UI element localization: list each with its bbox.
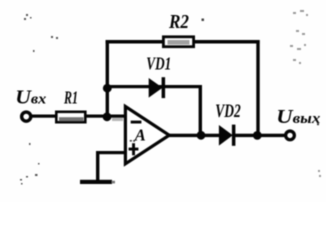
diode VD2 [219,125,236,146]
resistor R2 [163,37,193,47]
op-amp plus sign [129,143,139,155]
junction: VD1 branch tap [103,84,112,93]
wire: VD2 to output node and terminal [235,134,285,137]
svg-text:VD2: VD2 [215,102,241,122]
junction: output node [253,131,262,140]
resistor R1 [56,112,85,122]
wire: VD1 branch horizontal [107,85,200,88]
svg-text:R2: R2 [168,11,189,33]
svg-text:VD1: VD1 [146,54,171,74]
input terminal Uвх [22,112,31,121]
specks above plus [130,140,132,142]
wire: left vertical riser of feedback loop [106,40,109,117]
scan smudge inside R1 [59,117,84,121]
wire: inverting node to op-amp minus input [107,115,126,118]
wire: non-inverting input stub [96,151,127,154]
op-amp minus sign [131,121,142,124]
wire: ground drop [96,151,99,181]
scan smudge inside R2 [168,40,190,45]
wire: R2 to right riser [194,40,260,44]
diode VD1 [149,77,165,98]
wire: top feedback run to R2 [106,40,164,44]
wire: right vertical riser [256,40,259,136]
junction: op-amp output / VD1 return node [197,131,206,140]
dot under Uvyx [317,123,319,125]
output terminal Uвых [286,131,295,140]
wire: VD1 branch vertical drop [199,85,202,137]
op-amp A [125,107,169,164]
svg-text:A: A [134,126,146,145]
speck right of R2 [202,19,205,22]
wire: op-amp output to VD2 [169,134,220,137]
svg-text:Uвых: Uвых [276,106,321,128]
svg-text:Uвх: Uвх [15,86,47,108]
scan noise specks [20,14,58,185]
svg-text:R1: R1 [63,88,78,108]
wire: input terminal to inverting node [31,115,107,118]
ground [80,180,112,184]
scan smudge under inverting input wire [112,118,123,121]
junction: inverting input node [103,112,112,121]
